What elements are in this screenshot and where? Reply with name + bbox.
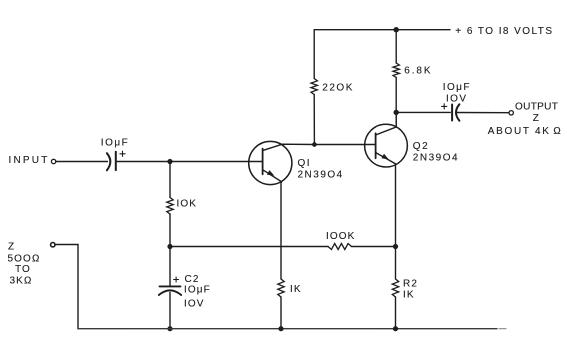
plus sign of C2 — [174, 277, 179, 282]
svg-text:IK: IK — [403, 290, 415, 301]
node: 10K / C2 / 100K junction — [167, 244, 172, 249]
wire: 1K to bottom rail — [280, 297, 282, 329]
transistor Q1 base bar — [262, 149, 264, 175]
wire: 100K to R2 top junction — [352, 246, 396, 248]
wire: Q1 emitter to 1K — [280, 247, 282, 280]
resistor R2 1K — [392, 279, 398, 297]
svg-text:6.8K: 6.8K — [404, 66, 432, 77]
transistor Q2 base lead — [365, 144, 376, 146]
svg-text:2N39O4: 2N39O4 — [413, 153, 459, 164]
transistor Q2 collector lead — [376, 112, 397, 135]
svg-text:IOOK: IOOK — [326, 231, 355, 242]
top supply rail — [314, 29, 450, 31]
svg-text:+ 6 TO I8 VOLTS: + 6 TO I8 VOLTS — [455, 26, 553, 37]
svg-text:Z: Z — [533, 113, 540, 124]
transistor Q2 circle — [365, 124, 408, 167]
transistor Q1 circle — [249, 141, 292, 184]
transistor Q2 base bar — [375, 133, 377, 158]
capacitor C2 wire from node — [169, 247, 171, 287]
wire: junction down to 10K — [169, 162, 171, 198]
node: Q1 collector / 220K / Q2 base junction — [312, 142, 317, 147]
plus sign of C1 — [120, 151, 125, 156]
svg-text:Z: Z — [8, 242, 15, 253]
svg-text:IOμF: IOμF — [184, 285, 211, 296]
transistor Q1 emitter arrow — [267, 170, 274, 176]
svg-text:22OK: 22OK — [322, 83, 354, 94]
node: supply rail / 6.8K junction — [394, 27, 399, 32]
wire: junction to Q2 base — [314, 144, 365, 146]
wire: Q2 collector junction to output capacitor — [396, 111, 450, 113]
svg-text:IOV: IOV — [184, 299, 205, 310]
wire: 220K to Q1 collector junction — [313, 95, 315, 145]
svg-text:QI: QI — [298, 158, 312, 169]
plus sign of output capacitor — [442, 104, 447, 109]
node: R2 bottom rail junction — [393, 326, 398, 331]
svg-text:IOV: IOV — [446, 93, 467, 104]
wire: C1 to Q1 base — [116, 161, 249, 163]
svg-text:OUTPUT: OUTPUT — [515, 102, 558, 113]
wire: 10K to node line — [169, 214, 171, 247]
capacitor C2 plates — [159, 286, 181, 295]
wire: 220K column top — [313, 30, 315, 79]
wire: output capacitor to output terminal — [456, 112, 509, 114]
wire: R2 top — [395, 247, 397, 280]
wire: 6.8K to Q2 collector — [395, 78, 397, 127]
node: C2 bottom rail junction — [167, 326, 172, 331]
svg-text:IOμF: IOμF — [443, 82, 471, 93]
svg-text:C2: C2 — [185, 274, 200, 285]
node: input junction — [167, 159, 172, 164]
resistor 100K — [328, 244, 352, 250]
resistor 6.8K — [393, 63, 399, 78]
transistor Q1 collector lead — [263, 144, 315, 150]
Z source terminal — [51, 243, 55, 247]
transistor Q2 emitter arrow — [381, 154, 388, 160]
transistor Q1 emitter lead — [263, 170, 282, 247]
output terminal — [509, 111, 513, 115]
resistor 220K — [311, 79, 317, 95]
wire: R2 to bottom rail — [395, 297, 397, 329]
node: emitter Q2 / 100K / R2 junction — [393, 244, 398, 249]
svg-text:TO: TO — [15, 264, 31, 275]
svg-text:3KΩ: 3KΩ — [10, 276, 33, 287]
transistor Q2 emitter lead — [376, 153, 396, 247]
wire: node line left segment to 100K — [170, 246, 328, 248]
node: Q2 collector / output junction — [394, 110, 399, 115]
svg-text:Q2: Q2 — [413, 141, 429, 152]
input terminal — [51, 159, 55, 163]
svg-text:R2: R2 — [403, 279, 418, 290]
wire: input terminal to capacitor C1 — [56, 161, 108, 163]
resistor 10K — [167, 198, 173, 215]
capacitor C3 10uF (output coupling) — [452, 104, 459, 120]
node: 1K bottom rail junction — [278, 326, 283, 331]
wire: supply to 6.8K — [395, 30, 397, 63]
svg-text:IOK: IOK — [177, 199, 198, 210]
capacitor C1 10uF (input coupling) — [107, 152, 116, 171]
wire: Z terminal to bottom rail — [55, 245, 78, 329]
svg-text:IOμF: IOμF — [101, 137, 129, 148]
svg-text:IK: IK — [290, 284, 302, 295]
resistor 1K — [278, 279, 284, 297]
wire: C2 to bottom rail — [169, 293, 171, 329]
svg-text:INPUT: INPUT — [9, 155, 50, 166]
svg-text:2N39O4: 2N39O4 — [298, 169, 344, 180]
bottom rail — [78, 328, 497, 330]
svg-text:5OOΩ: 5OOΩ — [8, 254, 41, 265]
transistor Q1 base lead — [249, 161, 263, 163]
